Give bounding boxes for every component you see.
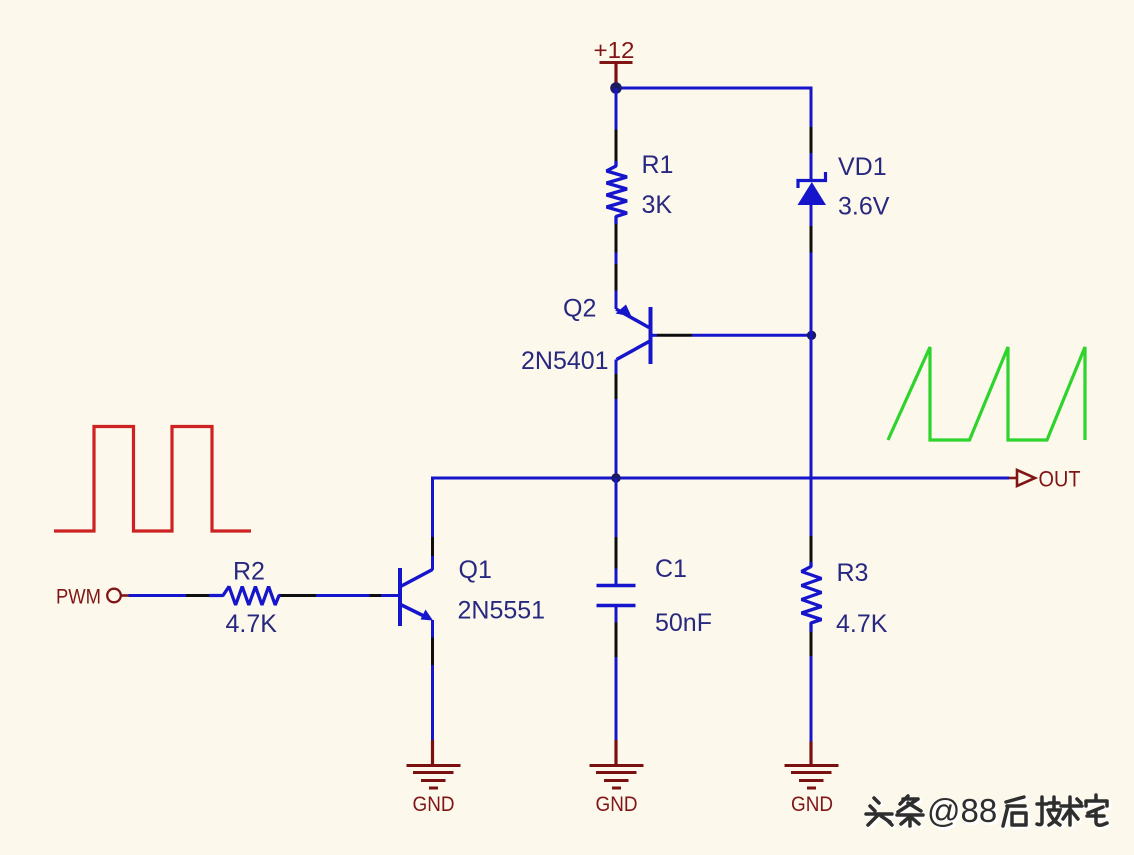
transistor Q1 [400,556,545,626]
svg-text:C1: C1 [655,555,687,583]
svg-text:4.7K: 4.7K [226,610,278,638]
svg-text:VD1: VD1 [838,153,887,181]
resistor R2 [209,558,281,639]
port PWM [56,586,129,609]
port OUT [1009,467,1081,492]
svg-text:OUT: OUT [1039,467,1081,492]
wire +12 rail to VD1 corner [616,88,811,127]
svg-text:2N5401: 2N5401 [521,347,609,375]
wire R2 to Q1 base [281,594,317,597]
node junction at +12 / R1 [610,82,622,94]
ground GND3 [785,742,839,817]
resistor R1 [607,130,674,253]
svg-text:@88: @88 [927,792,997,829]
wire VD1 to base node and down to OUT rail [810,253,813,336]
svg-text:3.6V: 3.6V [838,193,890,221]
svg-text:GND: GND [791,793,833,816]
node junction C1 / OUT rail [611,473,620,482]
wire PWM to R2 [129,594,187,597]
node junction base / VD1 [807,331,816,340]
wire OUT rail [433,478,1010,570]
svg-text:4.7K: 4.7K [836,610,888,638]
wire Q1 emitter down [431,620,434,638]
wire Q1 collector pin black [431,537,434,556]
zener diode VD1 [798,127,890,253]
wire C1 branch top [615,478,618,537]
wire Q2 collector down [615,360,618,375]
svg-text:GND: GND [413,793,455,816]
svg-text:R3: R3 [837,559,869,587]
wire C1 bottom [615,606,618,623]
wire R1 top [615,88,618,130]
svg-text:PWM: PWM [56,586,101,609]
svg-text:2N5551: 2N5551 [458,597,546,625]
svg-text:R1: R1 [642,151,674,179]
svg-text:Q1: Q1 [459,556,492,584]
svg-text:3K: 3K [642,191,673,219]
PWM square waveform [54,427,251,532]
transistor Q2 [521,295,651,376]
resistor R3 [802,559,888,638]
svg-text:GND: GND [596,793,638,816]
svg-text:+12: +12 [594,37,635,63]
svg-text:50nF: 50nF [655,609,712,637]
wire R3 branch top [810,478,813,536]
capacitor C1 [597,555,712,637]
green sawtooth waveform [888,347,1085,440]
ground GND2 [590,740,644,816]
watermark 头条 @88后技术宅 [866,792,1109,831]
power +12 [594,37,635,88]
ground GND1 [407,740,461,816]
wire R3 bottom [810,622,813,632]
wire Q2 base lead [652,334,657,337]
svg-text:Q2: Q2 [563,295,596,323]
svg-text:R2: R2 [233,558,265,586]
wire R1 to Q2 emitter [615,253,618,265]
